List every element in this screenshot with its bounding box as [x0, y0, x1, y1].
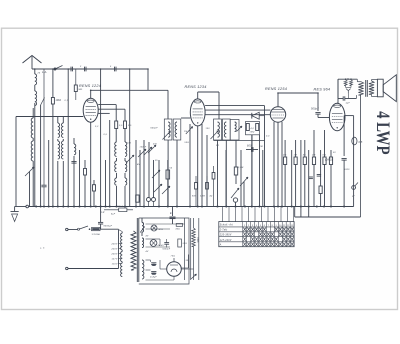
- tone resistor R15b: [350, 80, 353, 86]
- svg-text:RES 964: RES 964: [314, 88, 331, 92]
- svg-text:(0MΩ): (0MΩ): [325, 159, 333, 162]
- svg-text:0,1M: 0,1M: [200, 196, 205, 198]
- wire to band switch: [147, 69, 149, 90]
- capacitor C26: [71, 161, 76, 163]
- mains terminal A1: [66, 228, 68, 230]
- svg-text:RENS 1234: RENS 1234: [185, 85, 207, 89]
- wire grid V1: [16, 116, 83, 118]
- voltage table: [219, 222, 294, 247]
- mains terminal A2: [66, 267, 68, 269]
- wire x309: [308, 150, 310, 217]
- output transformer T3 core: [365, 80, 367, 97]
- svg-text:0,5M: 0,5M: [238, 167, 244, 169]
- svg-text:50Ω: 50Ω: [185, 142, 190, 144]
- capacitor C28: [41, 184, 46, 186]
- svg-text:0.1: 0.1: [283, 155, 287, 157]
- tone arm arrow: [346, 89, 351, 94]
- wire x140: [139, 150, 141, 207]
- trimmer arrow T1: [163, 131, 171, 140]
- resistor R22 50ohm: [178, 239, 182, 247]
- capacitor C30: [309, 176, 313, 178]
- rectifier tube V5 RGN 1064: [167, 262, 182, 277]
- ground: [11, 211, 19, 213]
- resistor R5: [124, 121, 127, 129]
- wire under IF boxes: [214, 140, 265, 142]
- svg-text:MΩ: MΩ: [79, 89, 83, 91]
- svg-text:2x4μF: 2x4μF: [149, 276, 157, 279]
- potentiometer P2: [147, 198, 151, 202]
- capacitor C29 5000pF: [164, 242, 169, 244]
- output transformer T3 primary: [358, 82, 363, 95]
- wire x144: [143, 140, 145, 207]
- capacitor C19: [343, 116, 345, 156]
- capacitor C0: [70, 67, 72, 72]
- variable capacitor C27: [186, 127, 193, 135]
- resistor R4 0.5M: [115, 121, 118, 129]
- coil L3: [57, 116, 59, 123]
- coil L7 tuning: [115, 142, 117, 156]
- resistor R14: [324, 130, 326, 157]
- switch S2 wave change: [41, 98, 45, 106]
- svg-text:5000pF: 5000pF: [163, 249, 171, 251]
- wire x129: [129, 69, 131, 207]
- svg-text:0,1: 0,1: [65, 100, 69, 102]
- wire anode V1 row a: [98, 104, 116, 106]
- coil L10 tall: [32, 108, 34, 118]
- svg-text:2M: 2M: [311, 155, 315, 157]
- upper junction dots: [147, 68, 149, 70]
- resistor R9: [284, 140, 286, 157]
- coil box L11: [230, 120, 239, 141]
- resistor R1 1M: [52, 69, 54, 98]
- pilot lamp LP1: [151, 225, 157, 231]
- svg-text:8000pF: 8000pF: [104, 226, 113, 228]
- bus-to-table taps: [222, 207, 224, 222]
- capacitor C31: [317, 174, 321, 176]
- variable capacitor C13: [240, 177, 248, 186]
- wire anode V2 row a: [205, 105, 264, 107]
- potentiometer P3 volume: [231, 188, 239, 198]
- capacitor C1: [84, 67, 86, 72]
- IF transformer T2 primary: [214, 119, 222, 140]
- ground bus: [29, 206, 354, 208]
- svg-text:RENS 1224: RENS 1224: [79, 84, 101, 88]
- svg-text:1MΩ: 1MΩ: [250, 132, 255, 134]
- svg-text:20: 20: [37, 73, 41, 75]
- svg-text:220V: 220V: [111, 244, 118, 246]
- antenna: [23, 56, 42, 64]
- wire x353 phone jack branch: [353, 116, 355, 207]
- coil L2 antenna secondary: [35, 91, 37, 105]
- wire x207: [206, 135, 208, 207]
- svg-text:50Ω: 50Ω: [183, 243, 188, 245]
- svg-text:100: 100: [127, 143, 132, 145]
- IF transformer T1 primary: [164, 119, 172, 140]
- coil L5: [73, 138, 75, 144]
- wire x68: [67, 69, 69, 207]
- variable capacitor C9 trimmer: [152, 170, 160, 178]
- output transformer T3 secondary: [369, 81, 374, 94]
- svg-text:4V: 4V: [146, 235, 149, 238]
- variable capacitor C3 trimmer: [25, 167, 34, 176]
- wire x251 to bus: [251, 135, 253, 207]
- wire anode V1 row c: [98, 112, 110, 114]
- svg-text:70Ω: 70Ω: [171, 256, 176, 258]
- wire grid coupling: [181, 117, 190, 119]
- wire x292: [291, 150, 293, 207]
- svg-text:100Ω: 100Ω: [196, 237, 198, 243]
- resistor R2: [84, 160, 86, 168]
- tone resistor R15: [344, 80, 347, 86]
- svg-text:μF: μF: [351, 196, 355, 198]
- capacitor C17 1uF: [337, 79, 339, 98]
- wire x184 HT: [184, 218, 186, 280]
- svg-text:L4: L4: [102, 211, 106, 214]
- svg-text:127V: 127V: [112, 259, 118, 261]
- svg-text:RENS 1254: RENS 1254: [265, 87, 287, 91]
- resistor R6: [167, 160, 169, 170]
- svg-text:0,5: 0,5: [104, 134, 108, 136]
- resistor R24: [330, 150, 332, 157]
- detector filter box: [246, 122, 260, 135]
- svg-text:1MΩ: 1MΩ: [56, 99, 62, 102]
- coil L8 tuning: [125, 142, 127, 156]
- wire x226: [225, 150, 227, 207]
- variable capacitor C5 gang: [126, 155, 134, 163]
- svg-text:0,3: 0,3: [266, 136, 270, 138]
- svg-text:500pF: 500pF: [311, 108, 319, 111]
- coil L6 interstage: [100, 69, 102, 207]
- resistor R11: [304, 140, 306, 157]
- wire x262: [262, 150, 264, 207]
- svg-text:Schalt.-Art: Schalt.-Art: [220, 224, 233, 227]
- heater winding W1: [142, 223, 144, 233]
- svg-text:0,5: 0,5: [119, 125, 123, 127]
- wire anode V4 to output transformer: [336, 102, 339, 104]
- capacitor C2: [114, 67, 116, 72]
- svg-text:220V: 220V: [111, 254, 118, 256]
- resistor R3: [93, 180, 95, 185]
- wire x259 to bus: [259, 135, 261, 207]
- fuse F1: [92, 228, 101, 231]
- heater winding W2: [142, 238, 144, 248]
- mains transformer T4 primary winding b: [131, 231, 136, 270]
- svg-text:2M: 2M: [259, 146, 263, 148]
- capacitor C24: [191, 274, 197, 279]
- svg-text:1M: 1M: [294, 155, 297, 157]
- wire x149: [148, 142, 150, 197]
- svg-text:0.1: 0.1: [323, 155, 327, 157]
- svg-text:1μF: 1μF: [346, 103, 351, 105]
- loudspeaker LS: [377, 79, 383, 97]
- wire x241: [240, 150, 242, 207]
- coil L4 tuned: [62, 116, 64, 123]
- resistor R10: [295, 140, 297, 157]
- wire x136: [135, 140, 137, 207]
- svg-text:100pF: 100pF: [140, 147, 147, 149]
- wire anode V2 row c: [205, 114, 270, 116]
- wire cathode V2: [189, 124, 191, 207]
- svg-text:2-Takt: 2-Takt: [219, 229, 228, 232]
- dial lamp LP2: [150, 240, 157, 247]
- svg-text:4 LWP: 4 LWP: [373, 111, 394, 154]
- trimmer arrow T2: [211, 131, 219, 140]
- wire anode V1 row b: [98, 108, 125, 110]
- wire cathode V3: [273, 122, 275, 207]
- wire x110: [109, 120, 111, 207]
- resistor R19: [206, 183, 209, 190]
- wire x105: [105, 160, 107, 207]
- wire antenna lead-in: [32, 68, 148, 70]
- svg-text:110V: 110V: [112, 264, 118, 266]
- svg-text:4A 4V: 4A 4V: [158, 244, 165, 247]
- svg-text:4Ω: 4Ω: [210, 195, 213, 198]
- resistor R7: [235, 141, 237, 168]
- wire transformer return: [360, 140, 362, 217]
- wire transformer return: [360, 95, 362, 140]
- wire anode V2 row b: [205, 109, 270, 111]
- svg-text:80kΩ: 80kΩ: [118, 206, 124, 208]
- variable capacitor C10 trimmer: [154, 184, 162, 192]
- resistor R16 40ohm: [176, 224, 182, 227]
- wire center V3: [277, 122, 279, 206]
- svg-text:600pF: 600pF: [151, 128, 159, 130]
- mains transformer T4 core: [136, 218, 138, 282]
- HT winding W3: [142, 260, 144, 279]
- svg-text:L.A.: L.A.: [42, 70, 48, 74]
- rectifier section enclosure: [139, 218, 189, 284]
- bus junction dots: [35, 205, 37, 207]
- svg-text:0,1: 0,1: [216, 145, 220, 147]
- variable capacitor C11 trimmer: [162, 186, 170, 194]
- IF transformer T1 secondary: [173, 119, 181, 140]
- wire vertical x48: [48, 140, 50, 207]
- svg-text:4M: 4M: [137, 163, 140, 166]
- svg-text:0,2: 0,2: [95, 126, 99, 128]
- wire x193 HT: [193, 218, 195, 228]
- svg-text:8μF: 8μF: [111, 214, 116, 216]
- mains transformer T4 primary taps: [118, 230, 120, 269]
- resistor R26: [212, 173, 215, 180]
- svg-text:1/125A: 1/125A: [92, 233, 101, 236]
- smoothing capacitor C25: [172, 207, 174, 217]
- wire x301: [300, 140, 302, 217]
- svg-text:4V: 4V: [146, 250, 149, 253]
- svg-text:25: 25: [154, 160, 158, 162]
- PSU wires: [141, 218, 143, 223]
- wire anode V2: [201, 124, 203, 207]
- resistor R21 80k: [104, 209, 119, 211]
- svg-text:1M: 1M: [184, 131, 187, 133]
- mains transformer T4 primary winding a: [121, 233, 123, 250]
- resistor R13: [320, 150, 322, 186]
- switch S1 antenna: [54, 68, 56, 70]
- resistor R12: [313, 130, 315, 157]
- variable capacitor C8 gang: [148, 145, 156, 153]
- detector horn: [252, 112, 259, 119]
- coil L1 antenna primary: [35, 74, 37, 85]
- wire x159: [158, 160, 160, 207]
- variable capacitor C7 gang: [144, 147, 152, 155]
- switch S4 heater: [140, 227, 145, 233]
- wire x252: [251, 135, 253, 207]
- filter capacitor C22 a: [151, 262, 156, 264]
- resistor R18: [195, 183, 198, 190]
- svg-text:220V: 220V: [111, 249, 118, 251]
- filter capacitor C23 b: [151, 271, 156, 273]
- wire lower return: [294, 207, 296, 218]
- svg-text:127-220V: 127-220V: [220, 240, 232, 242]
- resistor R25: [136, 195, 139, 202]
- IF transformer T2 secondary: [222, 119, 230, 140]
- svg-text:A: A: [219, 244, 222, 247]
- wire x79: [79, 150, 81, 207]
- mains switch S3: [68, 229, 78, 231]
- svg-text:E: E: [170, 212, 172, 215]
- wire cathode V1: [90, 122, 92, 206]
- svg-text:a. b: a. b: [40, 248, 45, 250]
- resistor R20: [75, 69, 77, 85]
- table X marks: [243, 228, 293, 247]
- wire L2 to bus: [34, 103, 36, 207]
- variable capacitor C6 gang: [138, 149, 146, 157]
- phone jack J1: [352, 186, 356, 190]
- svg-text:100: 100: [206, 128, 211, 130]
- svg-text:40Ω: 40Ω: [176, 227, 181, 230]
- svg-text:220-380V: 220-380V: [219, 235, 232, 237]
- electrolytic C20: [352, 137, 357, 145]
- svg-text:0,5: 0,5: [359, 141, 363, 144]
- svg-text:5000: 5000: [344, 169, 350, 171]
- svg-text:600: 600: [247, 145, 252, 148]
- wire anode V3: [281, 122, 283, 207]
